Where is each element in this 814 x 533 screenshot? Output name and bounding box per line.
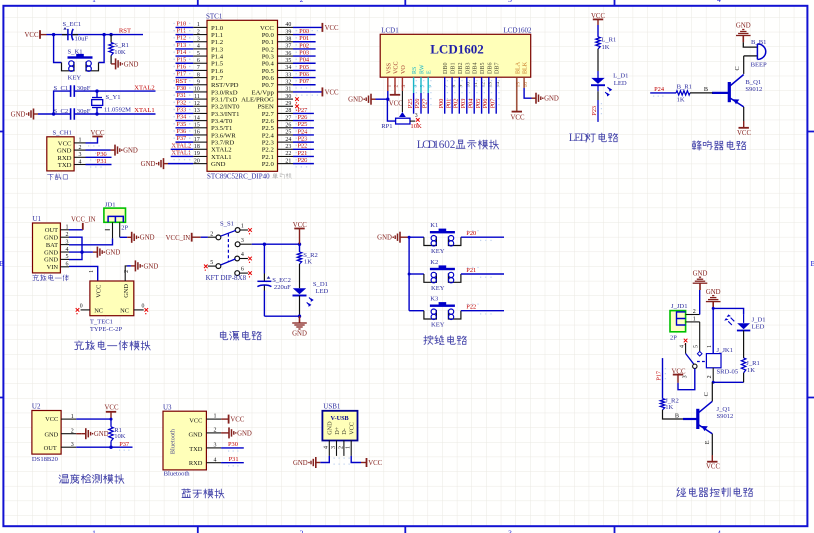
wire XTAL2 (74, 84, 155, 93)
STC1 pin 27 P2.6 (262, 114, 314, 125)
svg-text:STC89C52RC_DIP40: STC89C52RC_DIP40 (207, 173, 270, 181)
U3 pin 3 (206, 443, 221, 449)
svg-text:P02: P02 (299, 42, 309, 49)
svg-text:16: 16 (194, 130, 200, 136)
svg-text:7: 7 (197, 65, 200, 71)
LCD1 pin 2 VCC (394, 61, 400, 87)
svg-text:GND: GND (123, 284, 130, 298)
capacitor S_C1 30pF (54, 85, 91, 97)
svg-text:3: 3 (683, 375, 689, 378)
wire crystal ground rail (38, 91, 71, 116)
transistor B_Q1 S9012 (712, 56, 762, 107)
svg-text:P03: P03 (299, 49, 309, 56)
svg-text:P01: P01 (445, 99, 452, 109)
STC1 pin 6 P1.5 (174, 56, 224, 67)
U2 pin 2 (61, 429, 76, 435)
IC U2 DS18B20 body (32, 402, 61, 463)
svg-text:4: 4 (66, 247, 69, 253)
svg-text:GND: GND (377, 235, 392, 242)
STC1 pin 29 PSEN (257, 101, 298, 111)
svg-text:1: 1 (92, 529, 96, 533)
IC USB1 V-USB body (322, 403, 357, 441)
svg-text:P2.5: P2.5 (262, 125, 275, 132)
svg-text:12: 12 (194, 101, 200, 107)
LCD1 pin 8 DB1 (451, 62, 457, 87)
svg-text:26: 26 (285, 122, 291, 128)
LCD1 pin 9 DB2 (458, 62, 464, 87)
svg-text:17: 17 (194, 137, 200, 143)
caption 继电器控制电路 (677, 488, 753, 497)
LED S_D1 (293, 264, 329, 307)
svg-text:XTAL1: XTAL1 (134, 107, 154, 114)
caption LCD1602显示模块 (417, 139, 499, 151)
svg-text:NC: NC (94, 308, 103, 315)
USB1 pin 4 (324, 441, 330, 456)
svg-text:36: 36 (285, 51, 291, 57)
svg-text:GND: GND (736, 23, 751, 30)
svg-text:0: 0 (142, 304, 145, 310)
LCD1 pin 7 DB0 (443, 62, 449, 87)
svg-text:11: 11 (194, 94, 200, 100)
svg-text:B_B1: B_B1 (751, 39, 766, 46)
caption 蓝牙模块 (182, 489, 224, 498)
STC1 pin 7 P1.6 (174, 63, 224, 74)
svg-text:KEY: KEY (431, 248, 445, 255)
S_CH1 pin 4 (74, 159, 85, 165)
svg-text:2: 2 (66, 232, 69, 238)
LCD1 pin 14 DB7 (495, 62, 501, 87)
svg-text:VIN: VIN (47, 264, 59, 271)
svg-text:NC: NC (120, 308, 129, 315)
svg-text:S9012: S9012 (745, 86, 762, 93)
svg-text:GND: GND (141, 161, 156, 168)
svg-text:P31: P31 (97, 158, 107, 165)
ground GND (relay coil) (706, 289, 721, 309)
svg-text:VCC: VCC (706, 464, 720, 471)
U1 pin 3 BAT (46, 239, 69, 249)
caption 充放电一体模块 (75, 341, 151, 350)
svg-text:P30: P30 (97, 151, 107, 158)
svg-text:P30: P30 (228, 441, 238, 448)
svg-text:10K: 10K (114, 433, 126, 440)
svg-text:31: 31 (285, 87, 291, 93)
IC LCD1 LCD1602 body (380, 26, 532, 77)
STC1 pin 37 P0.2 (262, 42, 316, 53)
net P02 (LCD) (453, 77, 463, 114)
svg-text:P07: P07 (489, 99, 496, 109)
IC T_TEC1 TYPE-C-2P body (90, 281, 134, 333)
svg-text:P1.4: P1.4 (211, 53, 224, 60)
LCD1 pin 3 VO (401, 65, 407, 88)
power port VCC (relay emitter) (704, 434, 721, 471)
U2 pin 3 (61, 442, 76, 448)
svg-text:STC1: STC1 (206, 13, 223, 21)
svg-text:3: 3 (331, 446, 337, 449)
svg-text:J_JK1: J_JK1 (717, 347, 734, 354)
svg-text:BLK: BLK (523, 61, 529, 74)
svg-text:1: 1 (346, 446, 352, 449)
svg-text:220uF: 220uF (274, 284, 291, 291)
svg-text:P0.6: P0.6 (262, 75, 275, 82)
resistor J_R2 1K (660, 397, 678, 411)
svg-text:P05: P05 (299, 64, 309, 71)
power port VCC (buzzer emitter) (737, 107, 751, 137)
key S_K1 KEY (54, 35, 105, 82)
net P37 (U2 OUT) (76, 441, 132, 451)
svg-text:E: E (704, 440, 711, 444)
svg-text:P27: P27 (297, 107, 308, 114)
svg-text:34: 34 (285, 65, 291, 71)
svg-text:J_D1: J_D1 (752, 316, 766, 323)
S_CH1 pin 3 (74, 152, 85, 158)
svg-text:GND: GND (693, 270, 708, 277)
svg-text:P00: P00 (438, 99, 445, 109)
svg-text:P03: P03 (460, 99, 467, 109)
svg-text:2P: 2P (121, 225, 128, 232)
U1 pin 6 VIN (47, 262, 69, 272)
STC1 pin 5 P1.4 (174, 49, 224, 60)
svg-text:C: C (703, 392, 710, 396)
svg-text:BEEP: BEEP (751, 61, 767, 68)
svg-text:2: 2 (124, 270, 130, 273)
svg-text:P24: P24 (297, 128, 308, 135)
switch S_S1 (201, 220, 252, 282)
svg-text:TXD: TXD (58, 162, 72, 169)
IC STC1 STC89C52RC_DIP40 body (206, 13, 278, 181)
svg-text:3: 3 (508, 0, 512, 4)
svg-text:DB7: DB7 (495, 62, 501, 74)
svg-text:1K: 1K (602, 44, 610, 51)
svg-text:P3.7/RD: P3.7/RD (211, 140, 234, 147)
USB1 pin 1 (346, 441, 352, 456)
svg-text:15: 15 (194, 122, 200, 128)
svg-text:D: D (580, 132, 588, 144)
svg-text:KFT DIP-8X8: KFT DIP-8X8 (206, 274, 247, 282)
svg-text:V-USB: V-USB (331, 415, 349, 422)
svg-text:DB0: DB0 (443, 62, 449, 74)
J_JD1 pin 2 (686, 290, 700, 315)
svg-text:RXD: RXD (57, 155, 71, 162)
ground GND (power circuit) (292, 316, 307, 337)
svg-text:RST: RST (175, 78, 187, 85)
power port VCC (power circuit) (293, 222, 307, 244)
U3 pin 4 (206, 457, 221, 463)
svg-text:19: 19 (194, 151, 200, 157)
svg-text:1K: 1K (747, 367, 755, 374)
STC1 pin 1 P1.0 (174, 20, 224, 31)
svg-text:2: 2 (214, 428, 217, 434)
ground GND (LCD left) (348, 94, 375, 105)
svg-text:XTAL2: XTAL2 (134, 84, 154, 91)
svg-text:4: 4 (79, 159, 82, 165)
LCD1 pin 1 VSS (386, 62, 392, 87)
svg-text:2: 2 (693, 309, 696, 315)
svg-text:B: B (810, 259, 814, 268)
svg-text:ALE/PROG: ALE/PROG (241, 97, 274, 104)
wire keys trunk (405, 236, 411, 311)
svg-text:P2.6: P2.6 (262, 118, 275, 125)
STC1 pin 17 P3.7/RD (174, 135, 235, 146)
caption 温度检测模块 (59, 474, 124, 483)
wire switch to VCC rail (252, 243, 301, 246)
svg-text:4: 4 (241, 252, 244, 258)
STC1 pin 25 P2.4 (262, 128, 314, 139)
svg-text:P04: P04 (467, 99, 474, 109)
svg-text:3: 3 (214, 443, 217, 449)
svg-text:U2: U2 (32, 402, 41, 410)
svg-text:1: 1 (71, 414, 74, 420)
ground GND (U1) (93, 247, 120, 258)
STC1 pin 14 P3.4/T0 (174, 114, 234, 125)
svg-text:P1.5: P1.5 (211, 61, 224, 68)
svg-text:GND: GND (44, 235, 58, 242)
STC1 pin 19 XTAL1 (171, 149, 232, 160)
svg-text:2: 2 (300, 0, 304, 4)
crystal S_Y1 11.0592M (92, 91, 131, 114)
svg-text:LCD1: LCD1 (381, 26, 399, 34)
T_TEC1 pin 1 VCC (89, 270, 95, 273)
svg-text:VCC: VCC (260, 25, 274, 32)
svg-text:P0.7: P0.7 (262, 82, 275, 89)
svg-text:P21: P21 (297, 150, 307, 157)
svg-text:1K: 1K (304, 259, 312, 266)
USB1 pin 3 (331, 441, 337, 456)
svg-text:4: 4 (680, 345, 686, 348)
ground GND (S_CH1) (86, 145, 138, 156)
svg-text:DB2: DB2 (458, 62, 464, 74)
svg-text:P22: P22 (297, 143, 307, 150)
svg-text:LCD1602: LCD1602 (430, 41, 483, 56)
svg-text:S_EC1: S_EC1 (63, 21, 82, 28)
svg-text:P27: P27 (421, 99, 428, 109)
svg-text:2: 2 (79, 145, 82, 151)
svg-text:VCC: VCC (394, 61, 400, 74)
power port VCC (LED circuit) (591, 13, 605, 25)
svg-text:P1.3: P1.3 (211, 46, 224, 53)
svg-text:VCC: VCC (58, 140, 72, 147)
svg-text:P3.2/INT0: P3.2/INT0 (211, 104, 240, 111)
S_CH1 compile marks (88, 145, 107, 167)
STC1 pin 10 P3.0/RxD (174, 85, 238, 96)
svg-text:P37: P37 (176, 135, 187, 142)
svg-text:23: 23 (285, 144, 291, 150)
svg-text:P07: P07 (299, 78, 310, 85)
relay contact common pin 5 (694, 322, 702, 356)
power port VCC (LCD pin2) (389, 77, 403, 107)
svg-text:PSEN: PSEN (257, 104, 274, 111)
IC U3 Bluetooth body (163, 403, 206, 477)
STC1 pin 33 P0.6 (262, 71, 316, 82)
svg-text:S_Y1: S_Y1 (106, 94, 121, 101)
svg-text:P1.2: P1.2 (211, 39, 223, 46)
wire U1 BAT to JD1 (69, 238, 113, 244)
svg-text:S_K1: S_K1 (68, 48, 83, 55)
svg-text:D+: D+ (334, 426, 341, 434)
svg-text:P0.4: P0.4 (262, 61, 275, 68)
svg-text:RST: RST (119, 28, 131, 35)
svg-text:P0.1: P0.1 (262, 39, 274, 46)
USB1 unconnected pin marks (334, 458, 350, 465)
STC1 pin 36 P0.3 (262, 49, 316, 60)
key K2 KEY (409, 259, 504, 292)
STC1 pin 3 P1.2 (174, 35, 224, 46)
STC1 pin 34 P0.5 (262, 64, 316, 75)
svg-text:GND: GND (106, 250, 121, 257)
svg-text:BLA: BLA (515, 61, 521, 74)
power port VCC_IN (U1 OUT) (69, 216, 96, 230)
svg-text:DB3: DB3 (465, 62, 471, 74)
svg-text:6: 6 (241, 267, 244, 273)
svg-text:29: 29 (285, 101, 291, 107)
LCD1 pin 6 E (427, 70, 433, 88)
svg-text:3: 3 (66, 239, 69, 245)
svg-text:RST/VPD: RST/VPD (211, 82, 239, 89)
svg-text:35: 35 (285, 58, 291, 64)
svg-text:4: 4 (717, 0, 721, 4)
LCD1 pin 10 DB3 (465, 62, 471, 87)
svg-text:P0.2: P0.2 (262, 46, 274, 53)
svg-text:P2.0: P2.0 (262, 161, 275, 168)
svg-text:U1: U1 (33, 215, 42, 223)
STC1 pin 40 VCC (260, 22, 339, 32)
net P04 (LCD) (467, 77, 477, 114)
svg-text:P06: P06 (299, 71, 309, 78)
svg-text:1K: 1K (665, 404, 673, 411)
svg-text:L_R1: L_R1 (601, 37, 616, 44)
svg-text:LCD1602: LCD1602 (504, 26, 533, 34)
svg-text:GND: GND (293, 460, 308, 467)
svg-text:P25: P25 (297, 121, 307, 128)
LCD1 pin 15 BLA (515, 61, 521, 87)
svg-text:TXD: TXD (189, 446, 203, 453)
svg-text:1: 1 (241, 224, 244, 230)
svg-text:25: 25 (285, 130, 291, 136)
svg-text:6: 6 (197, 58, 200, 64)
svg-text:39: 39 (285, 29, 291, 35)
svg-text:22: 22 (285, 151, 291, 157)
svg-text:GND: GND (11, 111, 26, 118)
net P30 (U3 TXD) (221, 441, 244, 451)
svg-text:38: 38 (285, 36, 291, 42)
svg-text:P1.1: P1.1 (211, 32, 223, 39)
svg-text:D-: D- (341, 428, 348, 435)
STC1 pin 22 P2.1 (262, 150, 314, 161)
svg-text:5: 5 (210, 260, 213, 266)
resistor R1 10K (109, 419, 126, 447)
power port VCC (reset) (25, 30, 47, 39)
svg-text:10uF: 10uF (75, 36, 89, 43)
svg-text:P31: P31 (229, 456, 239, 463)
ground GND (U3) (221, 427, 252, 438)
svg-text:B_Q1: B_Q1 (745, 79, 761, 86)
svg-text:10: 10 (194, 87, 200, 93)
svg-text:VCC: VCC (189, 418, 202, 425)
wire collector to coil junction (703, 382, 712, 401)
resistor J_R1 1K (741, 331, 759, 383)
svg-text:VCC: VCC (91, 130, 105, 137)
relay contact arm (686, 354, 707, 369)
svg-text:P1.0: P1.0 (211, 25, 224, 32)
svg-text:33: 33 (285, 72, 291, 78)
svg-text:KEY: KEY (68, 74, 82, 81)
svg-text:GND: GND (144, 263, 159, 270)
relay coil pin 2 (707, 368, 744, 384)
net P27 (LCD) (421, 77, 431, 114)
svg-text:P23: P23 (297, 136, 307, 143)
svg-text:2: 2 (210, 231, 213, 237)
LCD1 pin 12 DB5 (480, 62, 486, 87)
svg-text:VSS: VSS (386, 62, 392, 74)
LCD1 pin 16 BLK (523, 61, 529, 87)
STC1 pin 13 P3.3/INT1 (174, 106, 240, 117)
svg-text:3: 3 (241, 238, 244, 244)
connector J_JD1 2P body (670, 303, 688, 341)
resistor S_R2 1K (297, 244, 318, 265)
svg-text:10K: 10K (114, 49, 126, 56)
svg-text:4: 4 (214, 457, 217, 463)
svg-text:P17: P17 (176, 71, 187, 78)
svg-text:2: 2 (707, 375, 713, 378)
IC U1 充放电一体 body (33, 215, 61, 273)
svg-text:DB1: DB1 (451, 62, 457, 74)
svg-text:DB5: DB5 (480, 62, 486, 74)
svg-text:SRD-05: SRD-05 (717, 369, 739, 376)
svg-text:GND: GND (44, 257, 58, 264)
svg-text:USB1: USB1 (323, 403, 341, 411)
svg-text:K1: K1 (430, 222, 438, 229)
svg-text:1K: 1K (677, 97, 685, 104)
svg-text:11.0592M: 11.0592M (104, 107, 131, 114)
svg-text:VCC_IN: VCC_IN (166, 235, 191, 242)
JD1 pin 1 (105, 222, 113, 238)
svg-text:20: 20 (194, 158, 200, 164)
svg-text:1: 1 (66, 225, 69, 231)
svg-text:2: 2 (300, 529, 304, 533)
svg-text:VCC: VCC (95, 285, 102, 298)
T_TEC1 pin NC left (76, 304, 90, 315)
STC1 pin 11 P3.1/TxD (174, 92, 238, 103)
U1 pin 2 GND (44, 232, 69, 242)
svg-text:2P: 2P (670, 334, 677, 341)
STC1 pin 24 P2.3 (262, 136, 314, 147)
svg-text:P34: P34 (176, 114, 187, 121)
STC1 pin 23 P2.2 (262, 143, 314, 154)
LED L_D1 (591, 49, 628, 97)
svg-text:P0.0: P0.0 (262, 32, 275, 39)
svg-text:GND: GND (348, 97, 363, 104)
svg-text:4: 4 (324, 446, 330, 449)
svg-text:B: B (704, 86, 708, 93)
STC1 pin 18 XTAL2 (171, 142, 232, 153)
svg-text:VCC: VCC (105, 405, 119, 412)
svg-text:J_JD1: J_JD1 (671, 303, 688, 310)
svg-text:0: 0 (80, 304, 83, 310)
relay J_JK1 SRD-05 body (706, 347, 738, 375)
svg-text:LED: LED (316, 288, 329, 295)
svg-text:P02: P02 (453, 99, 460, 109)
power port VCC (U3) (221, 415, 245, 424)
relay coil pin 1 (707, 307, 715, 354)
svg-text:RXD: RXD (189, 460, 203, 467)
svg-text:GND: GND (211, 161, 226, 168)
STC1 pin 30 ALE/PROG (241, 94, 299, 104)
U3 pin 2 (206, 428, 221, 434)
connector S_CH1 下载口 body (47, 130, 74, 171)
svg-text:10K: 10K (410, 123, 422, 130)
svg-text:GND: GND (123, 148, 138, 155)
svg-text:DB4: DB4 (473, 62, 479, 74)
svg-text:14: 14 (194, 115, 200, 121)
